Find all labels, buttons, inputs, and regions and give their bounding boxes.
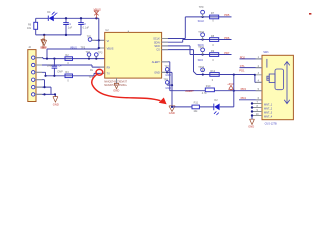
svg-text:GND: GND — [165, 74, 171, 77]
svg-text:GND: GND — [154, 72, 160, 75]
svg-text:0.1uF: 0.1uF — [83, 27, 90, 30]
svg-text:VBUS: VBUS — [107, 48, 114, 51]
svg-text:GND: GND — [248, 125, 254, 129]
svg-text:TP1: TP1 — [87, 35, 92, 38]
svg-text:SDIN: SDIN — [154, 41, 160, 44]
svg-text:GND: GND — [40, 45, 46, 49]
svg-text:MNT_2: MNT_2 — [264, 107, 273, 110]
svg-text:PD7: PD7 — [224, 51, 230, 55]
svg-text:CTL: CTL — [240, 64, 246, 68]
svg-text:PD4: PD4 — [241, 96, 247, 100]
svg-text:1uF: 1uF — [68, 27, 73, 30]
svg-text:SDO: SDO — [198, 59, 203, 62]
svg-text:TP12: TP12 — [198, 66, 205, 69]
svg-text:MNT_1: MNT_1 — [264, 103, 273, 106]
svg-text:DNP: DNP — [47, 65, 53, 68]
svg-text:PD6: PD6 — [224, 36, 230, 40]
svg-text:4.7k: 4.7k — [202, 92, 207, 95]
svg-text:PD3: PD3 — [241, 87, 247, 91]
svg-text:PD1: PD1 — [239, 68, 245, 72]
svg-text:TP5: TP5 — [81, 46, 86, 49]
svg-text:TP10: TP10 — [198, 31, 205, 34]
svg-text:VBUS: VBUS — [70, 46, 77, 49]
svg-text:GND: GND — [53, 103, 59, 107]
svg-text:TP8: TP8 — [163, 79, 168, 82]
svg-text:SCLK: SCLK — [153, 38, 160, 41]
svg-text:CS: CS — [156, 49, 160, 52]
svg-text:TP2: TP2 — [86, 51, 91, 54]
svg-text:GND: GND — [113, 89, 119, 93]
svg-text:R12: R12 — [211, 70, 216, 73]
svg-text:R10: R10 — [206, 85, 211, 88]
svg-text:GND: GND — [165, 87, 171, 90]
svg-text:ALERT: ALERT — [185, 89, 194, 93]
svg-text:ALERT: ALERT — [152, 61, 160, 64]
svg-text:TP3: TP3 — [98, 52, 103, 55]
svg-text:MAX20743EZXSOM+: MAX20743EZXSOM+ — [104, 84, 127, 87]
svg-text:TP9: TP9 — [199, 6, 204, 9]
svg-text:DNP: DNP — [58, 71, 64, 74]
svg-text:TX: TX — [107, 73, 111, 76]
svg-text:CUS-12TB: CUS-12TB — [265, 123, 277, 126]
svg-text:SDO: SDO — [154, 45, 159, 48]
svg-text:VBUS: VBUS — [94, 8, 102, 12]
svg-text:VI: VI — [107, 40, 110, 43]
svg-text:PD2: PD2 — [240, 55, 246, 59]
svg-text:GND: GND — [169, 111, 175, 115]
svg-text:+3V3: +3V3 — [227, 82, 234, 86]
svg-text:TP11: TP11 — [198, 46, 204, 49]
svg-text:TP7: TP7 — [164, 66, 169, 69]
svg-text:RX: RX — [107, 67, 111, 70]
svg-text:PD5: PD5 — [224, 13, 230, 17]
svg-text:MNT_3: MNT_3 — [264, 111, 273, 114]
svg-text:SW1: SW1 — [263, 51, 269, 54]
svg-text:MNT_4: MNT_4 — [264, 115, 273, 118]
svg-text:R11: R11 — [194, 102, 199, 105]
svg-text:SCLK: SCLK — [198, 20, 205, 23]
